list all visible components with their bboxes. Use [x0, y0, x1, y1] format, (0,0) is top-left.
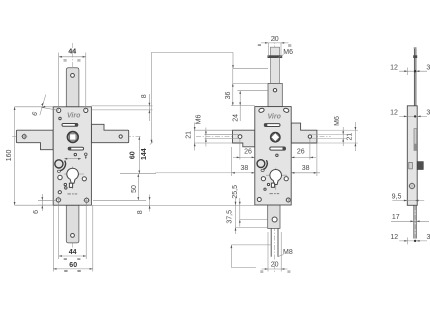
svg-text:3: 3 — [426, 64, 430, 71]
dim 21 left arm — [194, 123, 233, 151]
dim 21 side — [354, 122, 356, 151]
bottom screw hole left — [56, 198, 60, 202]
top rod — [66, 68, 79, 107]
threaded rod M8 — [271, 228, 278, 256]
tiny hole a — [64, 183, 66, 185]
right arm hole mid — [308, 135, 311, 138]
cyl screw hole left mid — [261, 177, 265, 181]
body plate — [53, 107, 91, 205]
dim 160 left — [15, 107, 54, 205]
dim 144 bold right — [152, 52, 234, 143]
small ellipse pin — [57, 170, 60, 172]
svg-text:12: 12 — [390, 110, 398, 117]
centerline vertical mid view — [274, 36, 276, 272]
keyhole crosshair — [64, 167, 84, 190]
side rod top — [414, 48, 416, 106]
small ellipse pin mid — [261, 169, 264, 171]
slot 2 — [68, 147, 83, 150]
small hole 2 — [74, 153, 76, 155]
cyl screw hole right mid — [284, 177, 288, 181]
top screw slot right — [283, 108, 289, 113]
side bolt — [417, 162, 423, 170]
projection lines arm hole to side view — [311, 135, 346, 139]
link line bottom rod — [231, 245, 271, 268]
knob circle mid — [257, 160, 265, 168]
MID-VIEW — [155, 36, 330, 272]
dim 17 — [391, 220, 429, 222]
small hole — [59, 117, 61, 119]
svg-text:26: 26 — [297, 148, 305, 155]
small knob glyph — [85, 153, 88, 156]
euro cylinder keyhole mid — [270, 169, 282, 184]
tiny hole b mid — [264, 188, 266, 190]
svg-text:M6: M6 — [196, 115, 203, 125]
slot 2 end block mid — [283, 147, 286, 150]
svg-text:37,5: 37,5 — [227, 210, 234, 224]
right arm mid — [291, 123, 317, 143]
slot 1 — [62, 124, 78, 127]
left arm hole — [22, 135, 26, 139]
svg-text:60: 60 — [130, 151, 137, 159]
slot 1 end block mid — [264, 123, 267, 126]
svg-text:160: 160 — [6, 149, 13, 161]
svg-text:26: 26 — [244, 148, 252, 155]
small hole mid — [276, 154, 278, 156]
centerline horizontal mid view arm axis — [196, 136, 331, 138]
svg-text:Viro: Viro — [268, 113, 282, 120]
svg-text:8: 8 — [137, 210, 144, 214]
bottom rod hole mid — [272, 217, 277, 222]
svg-text:44: 44 — [68, 49, 76, 56]
dim row 12-3 bottom — [399, 237, 427, 244]
svg-text:Viro: Viro — [67, 113, 81, 120]
stamp marks mid — [270, 193, 280, 195]
side bolt housing — [409, 162, 413, 169]
crescent arc — [60, 161, 66, 171]
cylinder screw hole right — [82, 177, 86, 181]
svg-text:M8: M8 — [283, 249, 293, 256]
svg-text:38: 38 — [302, 165, 310, 172]
crescent arc mid — [261, 160, 267, 170]
thin threaded rod top — [270, 47, 279, 83]
center square hub circle — [67, 132, 78, 143]
dim 20 bottom — [262, 232, 288, 272]
svg-text:44: 44 — [69, 249, 77, 256]
euro cylinder keyhole — [67, 168, 79, 183]
tiny hole b — [65, 187, 67, 189]
body plate mid — [255, 107, 291, 205]
center hub circle mid — [271, 133, 280, 142]
bottom screw hole left mid — [257, 198, 261, 202]
side slot — [414, 129, 417, 151]
top screw hole right — [84, 108, 88, 112]
dim 60 bottom — [53, 206, 93, 272]
left arm — [16, 130, 53, 150]
keyhole crosshair mid — [266, 168, 287, 190]
bottom screw hole right mid — [286, 198, 290, 202]
svg-text:M6: M6 — [283, 49, 293, 56]
dim row 12-3 top — [399, 68, 427, 76]
dim 26 right — [291, 139, 316, 160]
tiny hole a mid — [267, 183, 269, 185]
top wide rod hole — [273, 89, 276, 92]
svg-text:8: 8 — [141, 94, 148, 98]
svg-text:24: 24 — [232, 114, 239, 122]
rod nut — [268, 55, 283, 58]
svg-text:M6: M6 — [334, 116, 341, 126]
top rod hole — [71, 74, 75, 78]
dim row 12-3 mid — [399, 115, 427, 117]
svg-text:3: 3 — [426, 234, 430, 241]
double arrow indicator — [66, 158, 80, 160]
svg-text:38: 38 — [241, 165, 249, 172]
RIGHT-VIEW — [311, 47, 430, 244]
centerline horizontal left view (arm axis) — [12, 136, 141, 138]
side rod tip — [414, 47, 417, 49]
svg-text:144: 144 — [141, 148, 148, 160]
side screw — [409, 183, 414, 188]
left arm hole mid — [238, 135, 242, 139]
slot 2 end block — [68, 147, 71, 150]
dim 37,5 — [236, 198, 268, 234]
dim 9,5 — [392, 200, 424, 202]
bottom rod mid — [268, 205, 280, 228]
center square hub — [70, 134, 76, 140]
dim 25,5 — [240, 198, 268, 227]
slot 2 mid — [270, 147, 286, 150]
svg-text:12: 12 — [390, 64, 398, 71]
side bottom rod centerline — [414, 205, 416, 243]
dim 24 — [238, 91, 269, 121]
svg-text:3: 3 — [426, 110, 430, 117]
left arm mid — [233, 130, 255, 147]
dim M6 side — [342, 127, 344, 146]
slot 1 end block — [75, 123, 78, 126]
tiny hole c — [58, 191, 61, 194]
cylinder screw hole left — [58, 175, 62, 179]
svg-text:17: 17 — [392, 214, 400, 221]
side bottom rod — [414, 205, 416, 238]
top screw hole left — [57, 108, 61, 112]
dim 6 bottom left — [38, 194, 56, 211]
slot 1 mid — [264, 124, 280, 127]
keyhole square — [69, 183, 72, 187]
svg-text:12: 12 — [390, 234, 398, 241]
dim 8 bottom right — [88, 195, 255, 212]
dim 44 top — [59, 53, 86, 111]
side plate — [407, 106, 417, 206]
dim 38 right — [291, 143, 320, 176]
dim 8 top right — [91, 94, 152, 121]
side nut — [413, 55, 417, 58]
centerline vertical left view — [72, 43, 74, 252]
svg-text:20: 20 — [271, 261, 279, 268]
projection lines arm edges to side view — [318, 130, 359, 143]
svg-text:60: 60 — [69, 262, 77, 269]
svg-text:25,5: 25,5 — [232, 185, 239, 199]
svg-text:6: 6 — [33, 210, 40, 214]
link line 144 to rod top — [233, 52, 268, 68]
keyhole square mid — [271, 183, 274, 187]
bottom screw hole right — [85, 198, 89, 202]
dim 36 — [231, 68, 255, 105]
projection line cylinder axis — [155, 172, 255, 174]
dim M6 left arm — [205, 128, 239, 147]
svg-text:50: 50 — [131, 185, 138, 193]
dim 50 right — [93, 174, 146, 201]
svg-text:9,5: 9,5 — [392, 193, 402, 200]
svg-text:21: 21 — [186, 131, 193, 139]
right arm hole — [119, 135, 122, 138]
knob circle — [55, 160, 63, 168]
top screw slot left — [258, 108, 264, 113]
center hub square mid (diamond) — [271, 133, 280, 142]
side slot dark part — [414, 144, 417, 151]
top wide rod — [268, 83, 282, 106]
svg-text:21: 21 — [346, 133, 353, 141]
bottom rod hole — [71, 234, 75, 238]
left arm hole cross ticks — [21, 133, 27, 139]
svg-text:36: 36 — [225, 92, 232, 100]
dim 6 top oblique — [40, 95, 59, 116]
svg-text:20: 20 — [271, 36, 279, 43]
dim 26 left — [233, 139, 255, 160]
bottom rod — [66, 205, 79, 243]
stamp marks — [68, 193, 78, 195]
dim 38 left — [231, 147, 233, 176]
right arm — [91, 124, 128, 142]
dim 44 bottom — [59, 203, 86, 260]
LEFT-VIEW — [6, 43, 255, 272]
dim 60 bold right — [120, 137, 156, 174]
